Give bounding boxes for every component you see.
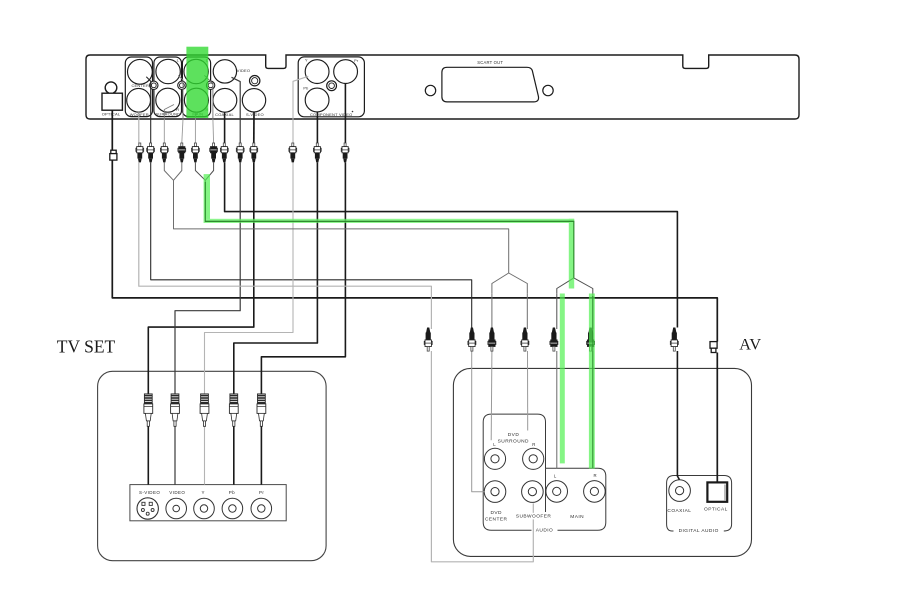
- svg-text:S-VIDEO: S-VIDEO: [139, 490, 160, 495]
- svg-text:TV SET: TV SET: [57, 336, 116, 356]
- svg-text:SURROUND: SURROUND: [156, 112, 181, 117]
- svg-text:DVD: DVD: [508, 432, 520, 438]
- svg-text:COAXIAL: COAXIAL: [215, 112, 234, 117]
- svg-text:Y: Y: [201, 490, 204, 495]
- svg-text:R: R: [594, 473, 597, 478]
- svg-text:DIGITAL AUDIO: DIGITAL AUDIO: [679, 528, 719, 534]
- svg-text:AV: AV: [739, 335, 761, 354]
- svg-text:R: R: [532, 442, 535, 447]
- svg-text:S-VIDEO: S-VIDEO: [246, 112, 264, 117]
- svg-text:OPTICAL: OPTICAL: [102, 112, 121, 117]
- svg-text:CENTER: CENTER: [131, 83, 149, 88]
- svg-text:COMPONENT VIDEO: COMPONENT VIDEO: [310, 112, 353, 117]
- svg-text:L: L: [554, 474, 557, 479]
- svg-text:Pb: Pb: [303, 87, 308, 91]
- svg-text:OPTICAL: OPTICAL: [704, 506, 728, 512]
- svg-text:CENTER: CENTER: [485, 516, 508, 522]
- svg-text:Y: Y: [305, 58, 308, 63]
- svg-text:COAXIAL: COAXIAL: [667, 508, 691, 514]
- svg-text:Pr: Pr: [354, 59, 359, 63]
- svg-text:SUBWOOFER: SUBWOOFER: [516, 513, 552, 519]
- svg-text:AUDIO: AUDIO: [536, 527, 553, 533]
- svg-text:Pb: Pb: [229, 490, 235, 495]
- svg-text:L: L: [493, 442, 496, 447]
- svg-text:R: R: [176, 107, 179, 112]
- svg-text:DVD: DVD: [490, 510, 502, 516]
- svg-text:SCART OUT: SCART OUT: [477, 60, 503, 65]
- svg-text:Pr: Pr: [259, 490, 264, 495]
- svg-text:VIDEO: VIDEO: [237, 68, 250, 73]
- svg-text:MAIN: MAIN: [570, 514, 584, 520]
- svg-text:VIDEO: VIDEO: [169, 490, 185, 495]
- svg-text:WOOFER: WOOFER: [130, 112, 149, 117]
- svg-text:SURROUND: SURROUND: [498, 438, 529, 444]
